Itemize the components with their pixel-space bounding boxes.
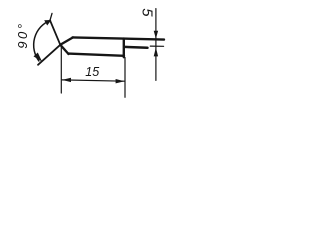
arrowhead: dim 15 left (62, 78, 71, 82)
svg-text:5: 5 (138, 8, 155, 17)
wire: tab middle line (125, 46, 148, 49)
wire: extension of lower edge beyond vertex (up-left, steep) (50, 20, 60, 45)
arrowhead: dim 5 upper (points down) (154, 31, 158, 39)
dimension line 5 (vertical) (155, 9, 157, 81)
wire: faint tip of steep extension (50, 13, 52, 20)
wire: extension of upper edge beyond vertex (down-left) (38, 45, 60, 65)
arrowhead: angle arc lower (34, 53, 43, 62)
arc: 90-degree angle dimension arc (34, 20, 50, 61)
svg-text:15: 15 (85, 65, 99, 79)
arrowhead: angle arc upper (44, 20, 51, 25)
wire: bar right end face (123, 39, 125, 58)
wire: upper V edge of point (60, 37, 73, 44)
wire: lower V edge of point (60, 45, 68, 54)
dimension line 15 (horizontal) (62, 80, 125, 81)
arrowhead: dim 15 right (116, 79, 125, 83)
extension line left (from vertex down) (60, 47, 62, 94)
extension line for dim 5 bottom (tab underside level) (150, 45, 163, 47)
wire: bar bottom edge (68, 54, 124, 56)
svg-text:90°: 90° (15, 21, 30, 48)
wire: bar top edge (also extension line for dim 5) (73, 37, 165, 39)
extension line right (below bar end) (124, 58, 126, 98)
arrowhead: dim 5 lower (points up) (154, 47, 158, 56)
